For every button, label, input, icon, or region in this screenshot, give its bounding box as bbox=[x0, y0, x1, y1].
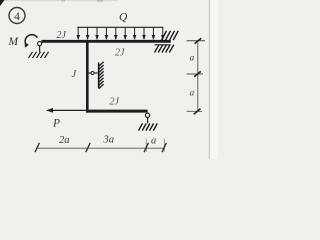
svg-text:2J: 2J bbox=[57, 30, 67, 41]
svg-text:M: M bbox=[8, 36, 20, 48]
svg-text:2J: 2J bbox=[115, 48, 125, 59]
svg-text:3a: 3a bbox=[103, 134, 115, 145]
svg-text:Q: Q bbox=[119, 12, 128, 24]
svg-text:2J: 2J bbox=[110, 97, 120, 108]
svg-text:4: 4 bbox=[14, 11, 20, 23]
svg-text:P: P bbox=[52, 117, 60, 129]
svg-text:a: a bbox=[190, 89, 195, 99]
svg-text:2a: 2a bbox=[59, 135, 70, 146]
svg-text:a: a bbox=[151, 136, 156, 147]
svg-text:a: a bbox=[190, 54, 195, 64]
